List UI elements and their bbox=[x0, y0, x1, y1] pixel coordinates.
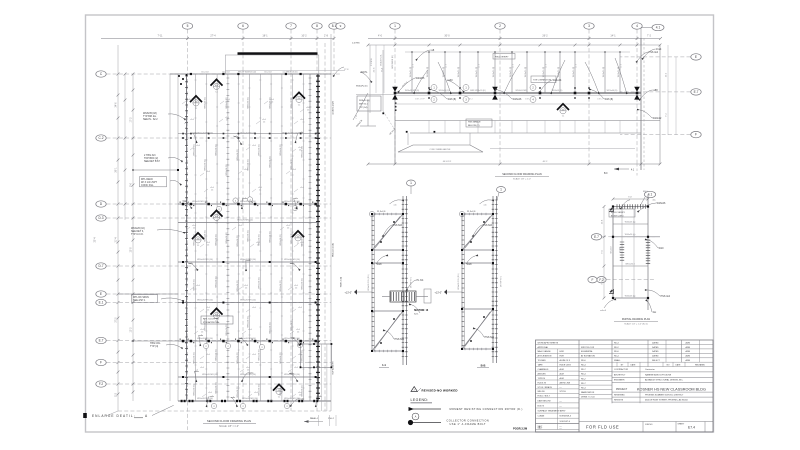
svg-text:46'-8 1/2: 46'-8 1/2 bbox=[443, 161, 452, 163]
svg-text:W16x26 MR (10): W16x26 MR (10) bbox=[242, 398, 258, 400]
svg-text:W16x26 (D): W16x26 (D) bbox=[302, 146, 304, 157]
svg-text:ADM: ADM bbox=[686, 341, 691, 344]
top-left corner cluster bbox=[178, 75, 180, 77]
svg-text:SHEET: SHEET bbox=[678, 423, 685, 425]
top bubbles 1-4 and 4.1 bbox=[390, 23, 400, 164]
svg-text:W16x26 (D): W16x26 (D) bbox=[280, 384, 282, 395]
svg-text:PROJECT: PROJECT bbox=[616, 388, 628, 391]
svg-text:ST DK / BRACE: ST DK / BRACE bbox=[538, 386, 553, 389]
svg-text:W16x26 (D): W16x26 (D) bbox=[248, 230, 250, 241]
frame left chord bbox=[371, 214, 373, 351]
svg-text:x8x6: x8x6 bbox=[188, 99, 192, 101]
svg-text:AT ELEVATION: AT ELEVATION bbox=[581, 355, 595, 358]
svg-text:HOLD / BOLT: HOLD / BOLT bbox=[538, 396, 551, 398]
svg-text:ENGINEER: ENGINEER bbox=[614, 380, 625, 382]
svg-text:PROW W/DECK (D): PROW W/DECK (D) bbox=[238, 71, 256, 73]
svg-text:x8x6: x8x6 bbox=[252, 145, 256, 147]
inner panel lines bbox=[407, 133, 409, 145]
svg-text:ALM: ALM bbox=[560, 377, 564, 380]
by/date header row bbox=[612, 366, 713, 368]
svg-text:DATED: DATED bbox=[652, 346, 659, 349]
svg-text:WELDS: WELDS bbox=[538, 391, 546, 393]
svg-text:E: E bbox=[695, 55, 697, 59]
svg-text:W16x26 (D): W16x26 (D) bbox=[302, 278, 304, 289]
frame top joint circle bbox=[369, 211, 374, 216]
svg-text:C.2: C.2 bbox=[99, 136, 104, 140]
svg-text:W16x26 (D): W16x26 (D) bbox=[226, 164, 228, 175]
svg-text:W16x26 (D): W16x26 (D) bbox=[280, 280, 282, 291]
far right vertical dims bbox=[667, 45, 669, 135]
svg-text:---: --- bbox=[560, 406, 562, 408]
title block project rows bbox=[612, 371, 713, 373]
svg-text:CONC PANEL ABOVE: CONC PANEL ABOVE bbox=[430, 148, 452, 151]
svg-text:PL 3/4: PL 3/4 bbox=[417, 279, 424, 282]
svg-text:W16x26 MR (10): W16x26 MR (10) bbox=[202, 374, 218, 376]
svg-text:W21x44 (LOA): W21x44 (LOA) bbox=[332, 243, 335, 257]
svg-text:ALM: ALM bbox=[560, 372, 564, 375]
svg-text:xx6x: xx6x bbox=[300, 399, 304, 401]
svg-text:W16x31 (8): W16x31 (8) bbox=[603, 67, 605, 78]
svg-text:W24 W/DK (D): W24 W/DK (D) bbox=[392, 55, 394, 69]
svg-text:26'-1: 26'-1 bbox=[116, 167, 118, 173]
svg-text:ENLARGE DEATIL:: ENLARGE DEATIL: bbox=[92, 414, 136, 418]
svg-text:34'-6: 34'-6 bbox=[116, 102, 118, 108]
title block second column bbox=[579, 343, 612, 345]
svg-text:---: --- bbox=[560, 400, 562, 402]
svg-text:W16x26 (D): W16x26 (D) bbox=[291, 232, 293, 243]
left plan leaders from notes bbox=[168, 114, 183, 118]
svg-text:F: F bbox=[100, 361, 102, 365]
svg-text:W16x26 MR (10): W16x26 MR (10) bbox=[240, 133, 256, 135]
svg-text:FIELD VERIFY: FIELD VERIFY bbox=[495, 57, 509, 59]
svg-text:D.3: D.3 bbox=[99, 216, 104, 220]
svg-text:W16x26 (D): W16x26 (D) bbox=[280, 234, 282, 245]
svg-text:HSS 6x6: HSS 6x6 bbox=[395, 338, 405, 341]
partial plan left bubbles bbox=[591, 234, 655, 240]
svg-text:xx6x: xx6x bbox=[189, 263, 193, 265]
svg-text:16'-4 1/2: 16'-4 1/2 bbox=[222, 71, 229, 73]
svg-text:W16x26 MR (10): W16x26 MR (10) bbox=[197, 300, 213, 302]
svg-text:xx8: xx8 bbox=[431, 49, 435, 52]
svg-text:TAPE: TAPE bbox=[538, 364, 544, 367]
svg-text:x8x6: x8x6 bbox=[238, 225, 242, 227]
field verify boxed notes bbox=[357, 96, 381, 111]
svg-text:RFT. S1 DPPRV: RFT. S1 DPPRV bbox=[203, 319, 220, 321]
svg-text:1: 1 bbox=[500, 188, 502, 192]
svg-text:xx6x: xx6x bbox=[243, 198, 247, 200]
svg-text:7-1: 7-1 bbox=[215, 91, 218, 93]
column line 4 dashed double bbox=[643, 38, 645, 170]
svg-text:22'-6: 22'-6 bbox=[412, 64, 414, 68]
dots near west wall bbox=[395, 102, 397, 104]
beam-joist connection dots bbox=[182, 203, 185, 206]
title block left section rows bbox=[536, 343, 580, 345]
partial plan hatched studs mid column bbox=[620, 242, 624, 260]
svg-text:x8x6: x8x6 bbox=[254, 392, 258, 394]
bottom bubbles for frame sections bbox=[407, 180, 416, 194]
intermediate horizontals right plan bbox=[395, 103, 641, 105]
svg-text:DATE BELOW: DATE BELOW bbox=[538, 399, 551, 402]
svg-text:USE 1" A-FRAME BOLT: USE 1" A-FRAME BOLT bbox=[450, 423, 486, 426]
left small detail at far left of right plan bbox=[353, 93, 368, 120]
svg-text:W24x55 MR: W24x55 MR bbox=[515, 90, 527, 92]
svg-text:7-1: 7-1 bbox=[298, 104, 301, 106]
left plan bottom chord with column dots bbox=[178, 400, 331, 402]
svg-text:DRWN # 17-04: DRWN # 17-04 bbox=[581, 397, 595, 399]
svg-text:TOLMED: TOLMED bbox=[538, 360, 547, 362]
top dimension line of right plan bbox=[368, 38, 660, 40]
svg-text:W16x26 MR (10): W16x26 MR (10) bbox=[282, 133, 298, 135]
svg-text:x8x6: x8x6 bbox=[206, 354, 210, 356]
svg-text:E.7: E.7 bbox=[99, 339, 104, 343]
svg-text:SCALE: 1/4" = 1'-0" (S2.2): SCALE: 1/4" = 1'-0" (S2.2) bbox=[624, 322, 648, 325]
svg-text:3/4 PL: 3/4 PL bbox=[361, 71, 369, 74]
svg-text:W16x26 MR (10): W16x26 MR (10) bbox=[240, 374, 256, 376]
svg-text:S2.1: S2.1 bbox=[414, 314, 419, 316]
svg-text:HSS BRACE: HSS BRACE bbox=[468, 121, 481, 124]
svg-text:14'-1: 14'-1 bbox=[610, 35, 616, 38]
svg-text:SEE S2.1: SEE S2.1 bbox=[359, 104, 369, 106]
dashed diag from wall bbox=[383, 111, 395, 130]
frame elevation marker bbox=[444, 289, 447, 294]
svg-text:REVISITS: REVISITS bbox=[614, 400, 624, 402]
svg-text:PNL-2: PNL-2 bbox=[328, 418, 335, 420]
moment connection diamonds in left plan bbox=[211, 79, 223, 93]
svg-text:ADM: ADM bbox=[686, 355, 691, 358]
upper beam at 133.5 with light dots bbox=[178, 133, 318, 135]
svg-text:W16x26 (D): W16x26 (D) bbox=[194, 384, 196, 395]
svg-text:DATED: DATED bbox=[652, 355, 659, 358]
svg-text:SCALE: 1/8" = 1'-0": SCALE: 1/8" = 1'-0" bbox=[513, 178, 531, 181]
svg-text:xx30: xx30 bbox=[448, 79, 454, 82]
svg-text:xx6x: xx6x bbox=[246, 260, 250, 262]
title block third column top rows bbox=[612, 343, 648, 345]
svg-text:W16x26 (D): W16x26 (D) bbox=[215, 382, 217, 393]
left plan outline - right edge heavy with stud ticks bbox=[317, 74, 319, 401]
svg-text:HSS 6x6: HSS 6x6 bbox=[483, 224, 493, 227]
svg-text:STYLE: STYLE bbox=[560, 391, 567, 393]
svg-text:27'-0: 27'-0 bbox=[116, 317, 118, 323]
black connection clusters on main beam bbox=[394, 92, 397, 95]
left plan lower dashed boundary bbox=[118, 410, 331, 412]
vertical dim left of right plan bbox=[375, 45, 377, 93]
svg-text:xx6x: xx6x bbox=[299, 132, 303, 134]
svg-text:7-1: 7-1 bbox=[215, 222, 218, 224]
svg-text:x8x6: x8x6 bbox=[190, 119, 194, 121]
svg-text:NORM-NR-3: NORM-NR-3 bbox=[560, 416, 572, 418]
svg-text:W16x26 (D): W16x26 (D) bbox=[237, 235, 239, 246]
svg-text:PARTIAL FRAMING PLAN: PARTIAL FRAMING PLAN bbox=[622, 318, 651, 321]
svg-text:E: E bbox=[100, 292, 102, 296]
svg-text:ADM: ADM bbox=[686, 350, 691, 353]
frame connection dots bbox=[371, 213, 373, 215]
left plan leader note stacks (left side) bbox=[143, 112, 158, 121]
svg-text:xx6x: xx6x bbox=[234, 136, 238, 138]
svg-text:SOLR-NT-4: SOLR-NT-4 bbox=[560, 421, 571, 423]
svg-text:W16x26 (D): W16x26 (D) bbox=[259, 349, 261, 360]
svg-text:xx6x: xx6x bbox=[231, 397, 235, 399]
svg-text:W24x55 (D): W24x55 (D) bbox=[552, 90, 563, 92]
svg-text:5/S7.1 TYP: 5/S7.1 TYP bbox=[415, 99, 425, 101]
svg-text:HDR: HDR bbox=[560, 351, 565, 353]
FOR APPROVAL boxed note bbox=[201, 316, 233, 324]
svg-text:BELOW (V): BELOW (V) bbox=[468, 125, 480, 127]
svg-text:4.1: 4.1 bbox=[648, 193, 653, 197]
svg-text:ALM: ALM bbox=[560, 368, 564, 371]
frame chords bbox=[372, 213, 403, 215]
svg-text:ASTM LINE: ASTM LINE bbox=[560, 381, 571, 384]
svg-text:7: 7 bbox=[290, 24, 292, 28]
circled numbers near beams bbox=[216, 206, 221, 211]
svg-text:TYP (D4): TYP (D4) bbox=[359, 107, 368, 109]
partial plan top bubble 4.1 bbox=[640, 191, 656, 206]
left grid bubbles with dashed grid lines bbox=[96, 71, 341, 77]
svg-text:SMALL: SMALL bbox=[614, 359, 621, 362]
svg-text:SECTION: 16: SECTION: 16 bbox=[414, 310, 429, 312]
svg-text:W16x26 (D): W16x26 (D) bbox=[269, 231, 271, 242]
partial plan corner section flags bbox=[609, 207, 614, 212]
svg-text:FABRICATION: FABRICATION bbox=[581, 391, 595, 394]
svg-text:xx6x: xx6x bbox=[183, 201, 187, 203]
svg-text:W21x44: W21x44 bbox=[553, 79, 562, 82]
svg-text:x8x6: x8x6 bbox=[252, 354, 256, 356]
frame chords bbox=[462, 213, 493, 215]
svg-text:4 bolt: 4 bolt bbox=[656, 48, 662, 51]
svg-text:22'-6: 22'-6 bbox=[545, 64, 547, 68]
svg-text:(LOA.EL.)(X)N: (LOA.EL.)(X)N bbox=[332, 101, 335, 115]
svg-text:W16x26 (y): W16x26 (y) bbox=[625, 295, 636, 297]
svg-text:W16x26 (D): W16x26 (D) bbox=[226, 232, 228, 243]
legend block bbox=[408, 363, 527, 430]
svg-text:ANGLES: ANGLES bbox=[538, 372, 547, 375]
svg-text:W16x26 (D): W16x26 (D) bbox=[302, 385, 304, 396]
svg-text:W16x26 MR (10): W16x26 MR (10) bbox=[240, 300, 256, 302]
svg-text:F: F bbox=[592, 278, 594, 282]
svg-text:DATE: DATE bbox=[631, 364, 637, 367]
svg-text:W18x35 (D): W18x35 (D) bbox=[291, 97, 293, 108]
svg-text:7-1: 7-1 bbox=[562, 116, 565, 118]
svg-text:xx6: xx6 bbox=[484, 205, 487, 207]
title block bottom strip bbox=[579, 421, 713, 423]
svg-text:32'-4: 32'-4 bbox=[95, 237, 97, 243]
svg-text:SELECT: SELECT bbox=[652, 360, 661, 362]
interior beams of left plan bbox=[178, 203, 318, 205]
svg-text:FIRST FLOOR: FIRST FLOOR bbox=[581, 347, 595, 349]
partial plan dims left bbox=[603, 207, 605, 299]
misc dots top band bbox=[182, 137, 184, 139]
left plan dimension columns at left bbox=[116, 45, 171, 411]
field verify box top bbox=[493, 54, 515, 60]
svg-text:2'-8: 2'-8 bbox=[324, 35, 329, 38]
svg-text:+13'-0": +13'-0" bbox=[435, 292, 443, 295]
ticked wall line at x=310 bbox=[309, 74, 311, 401]
partial plan corner dots bbox=[612, 205, 614, 207]
trapezoid concrete panel note bbox=[398, 145, 483, 152]
svg-text:3R TYP S7.1: 3R TYP S7.1 bbox=[501, 276, 503, 287]
svg-text:W24x55 (D): W24x55 (D) bbox=[439, 90, 450, 92]
frame column lines bbox=[402, 196, 404, 365]
svg-text:SECOND FLOOR FRAMING PLAN: SECOND FLOOR FRAMING PLAN bbox=[502, 173, 542, 176]
title block large blank area bbox=[578, 399, 580, 433]
svg-text:7-1: 7-1 bbox=[195, 108, 198, 110]
svg-text:SURFACE TREATMENT APRV: SURFACE TREATMENT APRV bbox=[538, 410, 567, 413]
svg-text:RELEASED: RELEASED bbox=[695, 364, 706, 367]
svg-text:W18: W18 bbox=[377, 263, 383, 266]
left plan: second floor framing plan bbox=[96, 23, 349, 430]
svg-text:W16x26 (D): W16x26 (D) bbox=[205, 159, 207, 170]
svg-text:TOE CONNECTION: TOE CONNECTION bbox=[533, 80, 552, 82]
partial plan outline bbox=[612, 207, 614, 299]
svg-text:xx6x: xx6x bbox=[290, 263, 294, 265]
svg-text:W16x26 (D): W16x26 (D) bbox=[237, 386, 239, 397]
frame diagonals double line bbox=[462, 214, 493, 250]
svg-text:6: 6 bbox=[242, 24, 244, 28]
top grid bubbles with vertical grid lines bbox=[182, 23, 192, 430]
svg-text:W16x26: W16x26 bbox=[657, 202, 666, 205]
left edge tab mark outside border bbox=[83, 413, 87, 418]
svg-text:22'-6: 22'-6 bbox=[478, 64, 480, 68]
roof notch outline top right of plan bbox=[225, 55, 318, 74]
svg-text:W16x26 (D): W16x26 (D) bbox=[259, 384, 261, 395]
right plan leader texts bbox=[400, 78, 415, 90]
svg-text:7'-11: 7'-11 bbox=[157, 35, 163, 38]
svg-text:4'-0: 4'-0 bbox=[378, 35, 383, 38]
svg-text:xx6x: xx6x bbox=[193, 132, 197, 134]
svg-text:18'-1: 18'-1 bbox=[262, 35, 268, 38]
svg-text:HDDE CM B: HDDE CM B bbox=[560, 365, 572, 367]
right middle partial framing plan bbox=[588, 191, 671, 325]
right plan second chord bbox=[395, 120, 660, 122]
svg-text:x8x6: x8x6 bbox=[244, 169, 248, 171]
svg-text:BOLTS: BOLTS bbox=[538, 406, 545, 408]
svg-text:APPROVAL: APPROVAL bbox=[538, 346, 550, 349]
svg-text:1-1: 1-1 bbox=[382, 363, 386, 367]
svg-text:D.7: D.7 bbox=[99, 264, 104, 268]
svg-text:W16x26 4: W16x26 4 bbox=[625, 263, 635, 265]
angle leaders right edge bbox=[641, 90, 652, 98]
svg-text:W16x26 MR (10): W16x26 MR (10) bbox=[240, 201, 256, 203]
interior joists of left plan bbox=[195, 74, 197, 401]
top dimension line of left plan bbox=[101, 38, 334, 40]
svg-text:HSS 6x6: HSS 6x6 bbox=[485, 336, 495, 339]
svg-text:W16x26 (D): W16x26 (D) bbox=[291, 319, 293, 330]
left plan top chord bbox=[170, 73, 331, 75]
svg-text:8: 8 bbox=[316, 24, 318, 28]
svg-text:1: 1 bbox=[394, 24, 396, 28]
svg-text:x8x6: x8x6 bbox=[252, 307, 256, 309]
svg-text:W16x26 MR (10): W16x26 MR (10) bbox=[284, 201, 300, 203]
svg-text:W16x26 (D): W16x26 (D) bbox=[215, 234, 217, 245]
joist mid ticks bbox=[227, 78, 230, 397]
partial plan hatched studs top bbox=[617, 204, 646, 208]
svg-text:1: 1 bbox=[410, 181, 412, 185]
legend item collector connection bbox=[412, 413, 419, 420]
svg-text:ELEMENTAL: ELEMENTAL bbox=[581, 350, 594, 353]
svg-text:ARCHITECT: ARCHITECT bbox=[614, 373, 626, 376]
braced frame detail B-B bbox=[435, 196, 503, 363]
svg-text:SATE.3 (D): SATE.3 (D) bbox=[340, 276, 343, 287]
svg-text:xx6x: xx6x bbox=[290, 373, 294, 375]
svg-text:F: F bbox=[695, 133, 697, 137]
svg-text:xx6: xx6 bbox=[394, 205, 397, 207]
svg-text:W16x26 MR (10): W16x26 MR (10) bbox=[192, 201, 208, 203]
svg-text:LEGEND:: LEGEND: bbox=[411, 398, 429, 402]
svg-text:SEE DET 5/S7: SEE DET 5/S7 bbox=[144, 160, 160, 163]
svg-text:SCALE: 1/8" = 1'-0": SCALE: 1/8" = 1'-0" bbox=[219, 425, 239, 428]
svg-text:1/S7.2: 1/S7.2 bbox=[597, 99, 602, 101]
svg-text:WORK APRV SHEETS: WORK APRV SHEETS bbox=[538, 341, 559, 344]
svg-text:W16x31 (8): W16x31 (8) bbox=[458, 67, 460, 78]
svg-text:x8x6: x8x6 bbox=[206, 171, 210, 173]
svg-text:CHANNELS: CHANNELS bbox=[538, 368, 550, 371]
svg-text:H-BOLTS: H-BOLTS bbox=[538, 382, 547, 384]
svg-text:---: --- bbox=[560, 428, 562, 430]
svg-text:xx6x: xx6x bbox=[249, 372, 253, 374]
second column lower rows bbox=[579, 370, 612, 372]
svg-text:HSS 6x6: HSS 6x6 bbox=[393, 224, 403, 227]
svg-text:x8x6: x8x6 bbox=[200, 367, 204, 369]
thick dark beam bar at top bbox=[238, 52, 318, 55]
partial plan leaders bbox=[622, 200, 630, 207]
partial plan top dim bbox=[613, 198, 648, 200]
revision triangle note bbox=[411, 387, 417, 392]
svg-text:MAG FLANGE: MAG FLANGE bbox=[538, 350, 552, 353]
svg-text:W16x26 (D): W16x26 (D) bbox=[215, 144, 217, 155]
svg-text:x8x6: x8x6 bbox=[292, 169, 296, 171]
svg-text:27'-4: 27'-4 bbox=[210, 35, 216, 38]
svg-text:W14x90 COL (F.V.): W14x90 COL (F.V.) bbox=[368, 274, 370, 291]
svg-text:2'-0 HSS: 2'-0 HSS bbox=[352, 43, 360, 45]
svg-text:MRF W24x55 (D): MRF W24x55 (D) bbox=[470, 90, 486, 92]
svg-text:4.1: 4.1 bbox=[656, 26, 661, 30]
svg-text:xx6x: xx6x bbox=[291, 338, 295, 340]
svg-text:W16x26 (D): W16x26 (D) bbox=[215, 276, 217, 287]
frame leader notes bbox=[384, 225, 392, 234]
svg-text:31'-4: 31'-4 bbox=[116, 237, 118, 243]
svg-text:x8x6: x8x6 bbox=[298, 307, 302, 309]
svg-text:W18: W18 bbox=[467, 263, 473, 266]
svg-text:3: 3 bbox=[588, 24, 590, 28]
lower panel box of right plan bbox=[394, 93, 396, 164]
svg-text:W18x35 (D): W18x35 (D) bbox=[248, 97, 250, 108]
svg-text:x8x6: x8x6 bbox=[196, 145, 200, 147]
svg-text:40'-2: 40'-2 bbox=[543, 161, 549, 163]
svg-text:xx6x: xx6x bbox=[294, 198, 298, 200]
svg-text:7-1: 7-1 bbox=[197, 245, 200, 247]
svg-text:W16x26 (D): W16x26 (D) bbox=[291, 158, 293, 169]
svg-text:W24x55 MR (D): W24x55 MR (D) bbox=[405, 90, 420, 92]
frame left chord bbox=[461, 214, 463, 349]
svg-text:ALUM OF 3: ALUM OF 3 bbox=[560, 359, 571, 362]
svg-text:(2) 5/8: (2) 5/8 bbox=[620, 247, 622, 252]
svg-text:W16x31 (8): W16x31 (8) bbox=[558, 67, 560, 78]
svg-text:Contractor: Contractor bbox=[645, 368, 655, 371]
frame elevation marker bbox=[354, 289, 357, 294]
legend item moment connection bbox=[409, 407, 415, 411]
svg-text:xx6x A: xx6x A bbox=[600, 309, 607, 312]
svg-text:W12x19: W12x19 bbox=[611, 247, 613, 254]
extra dim ladder x125 bbox=[124, 74, 126, 220]
svg-text:SEE 2/S7.1: SEE 2/S7.1 bbox=[133, 299, 146, 302]
svg-text:W16x26 (D): W16x26 (D) bbox=[205, 230, 207, 241]
svg-text:W16x(P.) (D): W16x(P.) (D) bbox=[356, 86, 368, 88]
svg-text:ADVANCE STRUCTURAL DESIGN, INC: ADVANCE STRUCTURAL DESIGN, INC. bbox=[645, 379, 684, 382]
svg-text:E.7: E.7 bbox=[594, 235, 599, 239]
svg-text:DATED: DATED bbox=[652, 341, 659, 344]
svg-text:REVISED-NO WORKED: REVISED-NO WORKED bbox=[422, 388, 458, 392]
frame column lines bbox=[492, 196, 494, 363]
left plan secondary right lines bbox=[324, 43, 326, 411]
